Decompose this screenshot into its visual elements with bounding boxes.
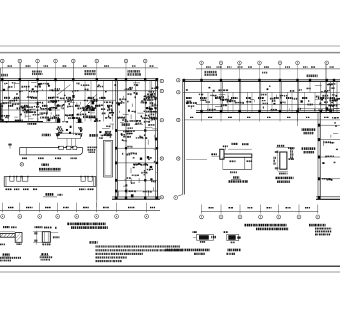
- column detail bottom tick: [278, 171, 288, 173]
- left plan cluster below beam: [56, 126, 71, 134]
- top border line lower: [0, 52, 340, 54]
- left plan bottom dimension line: [0, 209, 160, 211]
- right plan inner dimension line below wall: [184, 119, 340, 121]
- column drop leader lines to 2-2 bar: [66, 139, 68, 148]
- left plan annotation texts below dim line: [32, 71, 43, 76]
- right plan bottom grid bubbles: [200, 215, 204, 219]
- detail TZ right dim: [50, 232, 58, 234]
- left plan top grid bubbles axes 1-8: [1, 59, 5, 63]
- left plan interior annotation scatter upper: [3, 82, 154, 93]
- detail A right leg box: [15, 233, 22, 243]
- detail TZ left dim arrows: [36, 231, 38, 245]
- 3-3 section label: [42, 163, 49, 165]
- right plan inner verticals: [221, 81, 223, 112]
- right plan top grid extension lines: [201, 65, 203, 81]
- left plan wing wall column blobs: [115, 196, 117, 199]
- 2-2 right label block: [88, 147, 97, 149]
- left plan row line B: [0, 90, 158, 92]
- embed detail D: [224, 231, 228, 233]
- left plan interior vertical 5 extension: [72, 63, 74, 135]
- right plan caption: [245, 224, 287, 227]
- left plan tall stair box: [104, 140, 113, 177]
- column drop detail side texts: [42, 134, 51, 137]
- right extension junction blobs: [318, 124, 321, 127]
- right plan annotation below dim line: [205, 71, 218, 76]
- detail 1-1 left leader line: [186, 158, 207, 160]
- left plan caption: [67, 223, 105, 226]
- right extension thin vertical: [296, 113, 298, 127]
- right plan left edge double vertical: [182, 79, 184, 195]
- bottom border line upper: [0, 265, 340, 267]
- right extension main vertical double: [317, 113, 319, 200]
- right plan bottom wall column blobs: [200, 110, 202, 113]
- 3-3 strip dim texts below: [6, 188, 12, 190]
- 2-2 strip dim texts below: [22, 157, 27, 159]
- right extension label texts left: [302, 128, 316, 131]
- 4-4 label below strip: [46, 193, 54, 196]
- left plan row line C: [0, 99, 116, 101]
- embed detail C: [193, 231, 198, 233]
- detail 1-1 caption: [229, 180, 249, 182]
- right plan top grid bubbles: [200, 61, 204, 65]
- right extension row lines: [318, 124, 340, 126]
- detail TZ top texts: [35, 226, 43, 228]
- left plan bottom beam line left part: [0, 121, 43, 123]
- column drop detail right pier: [78, 119, 82, 123]
- detail A top texts: [3, 226, 10, 228]
- axis bubble near 3-3 label: [20, 163, 23, 166]
- right plan top wall column blobs: [200, 79, 202, 82]
- right plan interior scatter upper row: [186, 83, 336, 92]
- left plan dense bottom band: [1, 102, 60, 121]
- column detail labels: [276, 177, 294, 179]
- left plan top dimension texts: [8, 65, 13, 66]
- right plan bottom dimension line: [201, 211, 318, 213]
- detail 1-1 left column stub: [220, 149, 224, 159]
- detail 1-1 beam bar: [221, 154, 252, 157]
- 3-3 caption with underline: [39, 168, 61, 170]
- 2-2 strip left tick: [9, 144, 11, 149]
- right plan label row: [186, 97, 192, 99]
- column drop detail left pier: [57, 119, 61, 123]
- bottom border line lower: [0, 271, 340, 273]
- left plan bottom grid bubbles: [1, 215, 5, 219]
- left plan interior annotation scatter mid: [3, 93, 114, 123]
- left plan dense cluster right end: [144, 86, 159, 120]
- 3-3 strip column stubs: [10, 177, 14, 182]
- right plan left side row bubbles: [177, 79, 180, 82]
- left plan wing left wall double: [114, 80, 116, 199]
- right plan inner dim texts: [190, 117, 193, 118]
- top border line upper: [0, 45, 340, 47]
- notes header: [90, 241, 98, 244]
- left plan beam label below: [28, 123, 37, 125]
- detail 1-1 bottom line: [223, 168, 252, 170]
- left plan wing wall junction blobs: [115, 129, 117, 132]
- far right list header: [309, 224, 326, 227]
- left plan row line D: [0, 102, 38, 104]
- right plan top dimension line: [196, 68, 340, 70]
- right plan bottom wall double line: [196, 110, 340, 112]
- section 3-3 beam strip: [4, 177, 96, 187]
- left plan interior annotation scatter wing: [119, 123, 158, 198]
- column detail rect: [280, 152, 287, 169]
- section 2-2 beam strip: [20, 148, 83, 155]
- left plan wing inner grid verticals: [125, 80, 127, 199]
- right plan left edge bottom bubble: [178, 195, 183, 197]
- left plan top wall column blobs: [1, 78, 3, 81]
- embed detail C caption: [166, 249, 210, 252]
- embed detail D caption: [228, 249, 241, 252]
- left plan right wall double: [154, 79, 156, 199]
- left plan top dimension line: [0, 67, 158, 69]
- right plan dense right end cluster: [318, 94, 340, 111]
- right plan row extra right: [300, 108, 340, 110]
- 2-2 strip column stubs: [59, 146, 64, 149]
- left plan label row mid: [8, 105, 13, 107]
- left plan stair diagonal 1: [57, 85, 71, 96]
- column drop detail box: [58, 133, 81, 138]
- left plan top grid extension lines: [1, 63, 3, 79]
- right plan extra inner verticals: [207, 92, 209, 112]
- detail A hatched bar: [0, 233, 16, 237]
- left plan wing row lines: [115, 130, 158, 132]
- notes lines: [96, 245, 180, 247]
- column detail top tick: [276, 147, 290, 149]
- column detail right texts: [288, 147, 295, 149]
- right plan top wall double line: [183, 79, 340, 81]
- left plan label row above row C: [4, 97, 10, 99]
- left plan stair diagonal 2: [80, 95, 97, 114]
- right plan bottom extension ticks: [201, 113, 203, 122]
- left plan row line E: [0, 109, 60, 111]
- left plan right-side row bubbles: [160, 79, 163, 82]
- left plan label stack mid: [83, 109, 95, 112]
- detail 1-1 dim marks: [211, 153, 216, 155]
- right plan bottom dimension texts: [209, 207, 214, 208]
- detail TZ bottom texts: [42, 244, 50, 246]
- detail TZ labels: [41, 253, 48, 255]
- left plan bottom dimension ticks: [2, 203, 4, 213]
- left plan left edge wall hatch: [0, 103, 2, 121]
- detail 1-1 label: [233, 176, 239, 178]
- right plan row line C: [196, 103, 340, 105]
- detail A dim marks: [0, 231, 15, 233]
- 2-2 label and caption: [3, 253, 10, 255]
- right plan interior scatter main row: [186, 94, 337, 111]
- right plan bottom dimension ticks: [201, 205, 203, 214]
- right plan row line B: [183, 91, 340, 93]
- left plan wing bottom wall double: [112, 196, 160, 198]
- left plan left edge line: [0, 68, 1, 122]
- detail TZ column rect: [42, 232, 50, 243]
- detail 1-1 right drop verticals: [244, 157, 246, 169]
- 2-2 strip inner divider: [25, 148, 27, 155]
- left plan grid line 2 double: [20, 63, 22, 122]
- right extension bottom wall double: [316, 196, 340, 198]
- column detail left dim: [276, 150, 278, 171]
- left plan extra inner verticals: [8, 81, 10, 122]
- right plan top dimension texts: [206, 66, 211, 67]
- left plan top wall double line: [0, 78, 158, 80]
- far right list lines: [315, 228, 331, 230]
- left plan bottom dimension texts: [8, 207, 13, 208]
- right extension interior scatter: [322, 117, 339, 181]
